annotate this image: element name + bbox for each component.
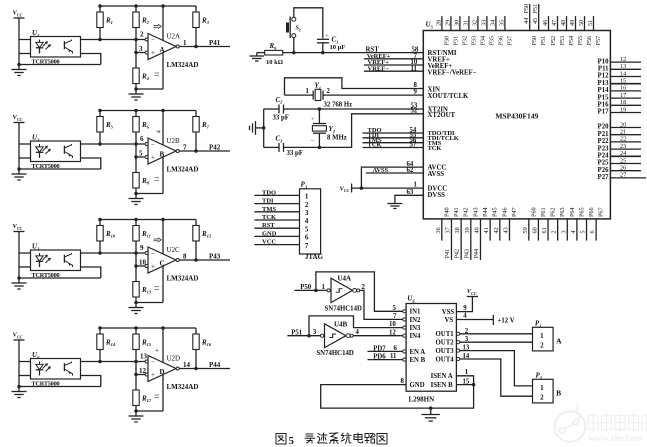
svg-text:2: 2	[540, 393, 544, 401]
wire sensor ground bus	[19, 277, 101, 279]
wire output net P44	[179, 361, 230, 369]
pin 19 P17	[598, 106, 641, 115]
wire VCC drop	[18, 18, 20, 65]
wire emitter to ground bus	[81, 158, 101, 169]
svg-text:RST: RST	[262, 222, 275, 229]
svg-text:A: A	[556, 337, 562, 346]
wire LED cathode to ground bus	[19, 157, 31, 159]
wire OUT2 to P1.2	[460, 336, 533, 343]
wire LED cathode to ground bus	[19, 266, 31, 268]
svg-text:GND: GND	[262, 230, 277, 237]
svg-text:TMS: TMS	[262, 206, 276, 213]
VCC supply sensor block P42	[13, 114, 25, 122]
svg-text:3: 3	[560, 230, 567, 233]
pin 40 P44	[473, 207, 489, 260]
svg-text:7: 7	[183, 144, 187, 152]
svg-text:P32: P32	[461, 36, 468, 46]
resistor R11 divider top	[133, 220, 151, 282]
wire JTAG VCC pin 7	[254, 239, 309, 250]
pin 5 P66	[580, 207, 596, 240]
pin circle OUT3	[457, 349, 460, 352]
svg-text:OUT4: OUT4	[436, 356, 455, 363]
svg-text:9: 9	[140, 244, 144, 252]
pin 61 P62	[541, 207, 557, 240]
pin circle IN3	[403, 326, 406, 329]
svg-text:18: 18	[620, 99, 626, 106]
connector P2 motor B	[533, 372, 562, 403]
svg-text:−: −	[151, 249, 155, 257]
wire ISEN B	[456, 378, 473, 385]
pin 2 P63	[551, 207, 567, 240]
wire sensor top rail	[19, 143, 146, 145]
svg-text:2: 2	[540, 341, 544, 349]
svg-text:TDO: TDO	[262, 189, 276, 196]
svg-text:B: B	[160, 151, 165, 159]
pin 43 P47	[502, 207, 518, 240]
svg-text:TCK: TCK	[368, 142, 382, 149]
optocoupler U6 TCRT5000	[31, 351, 81, 388]
svg-text:32 768 Hz: 32 768 Hz	[324, 101, 353, 108]
svg-text:P25: P25	[598, 160, 610, 167]
svg-text:25: 25	[620, 157, 626, 164]
svg-text:10 kΩ: 10 kΩ	[266, 59, 283, 66]
svg-text:29: 29	[444, 20, 451, 26]
svg-text:1: 1	[183, 39, 187, 47]
svg-text:5: 5	[139, 150, 143, 158]
wire ground rail left	[263, 109, 265, 147]
svg-text:6: 6	[394, 345, 398, 352]
wire emitter to ground bus	[81, 267, 101, 278]
svg-text:1: 1	[305, 193, 309, 201]
op-amp U2C LM324AD	[136, 220, 198, 303]
svg-text:8: 8	[401, 378, 405, 385]
svg-text:U2C: U2C	[167, 246, 181, 254]
resistor R9 10k	[265, 42, 283, 66]
pin 44 P50 net stub	[523, 4, 538, 46]
svg-text:12: 12	[139, 367, 147, 375]
pin 59 P60	[522, 207, 538, 240]
svg-text:+: +	[311, 117, 314, 123]
svg-text:52: 52	[411, 107, 418, 114]
svg-text:4: 4	[463, 312, 467, 319]
wire output net P43	[179, 253, 230, 261]
pin 45 P51 net stub	[532, 4, 547, 46]
svg-text:P43: P43	[472, 207, 479, 217]
svg-text:VS: VS	[445, 317, 454, 324]
svg-text:61: 61	[541, 227, 548, 233]
svg-text:14: 14	[183, 361, 191, 369]
svg-text:2: 2	[465, 328, 469, 335]
pin 35 P37	[498, 16, 513, 45]
svg-text:P61: P61	[540, 207, 547, 217]
pin circle OUT4	[457, 357, 460, 360]
pin 50 P56	[578, 16, 593, 45]
svg-text:+: +	[151, 154, 155, 162]
capacitor C3 33pF	[264, 135, 320, 157]
svg-text:P36: P36	[497, 36, 504, 46]
VCC supply DVCC	[340, 184, 352, 194]
svg-text:8 MHz: 8 MHz	[327, 134, 347, 141]
svg-text:11: 11	[155, 285, 161, 291]
svg-text:2: 2	[305, 201, 309, 209]
svg-text:+: +	[155, 347, 159, 355]
svg-text:U2B: U2B	[167, 137, 181, 145]
resistor R13 divider bottom	[133, 282, 152, 303]
wire ISEN A	[456, 369, 473, 385]
wire DVSS to ground	[395, 195, 423, 201]
svg-text:SN74HC14D: SN74HC14D	[325, 305, 362, 312]
switch S1 reset	[286, 17, 301, 39]
svg-text:3: 3	[139, 45, 143, 53]
ground divider	[129, 89, 144, 100]
wire P51 to IN3	[309, 316, 404, 336]
optocoupler U2 TCRT5000	[31, 134, 81, 171]
svg-text:P51: P51	[532, 4, 539, 14]
svg-text:P13: P13	[598, 80, 610, 87]
svg-text:L298HN: L298HN	[409, 396, 435, 404]
svg-text:30: 30	[453, 20, 460, 26]
pin 36 P40	[435, 207, 451, 240]
svg-text:42: 42	[493, 227, 500, 233]
svg-text:AVSS: AVSS	[373, 167, 389, 174]
svg-text:P40: P40	[443, 207, 450, 217]
svg-text:P51: P51	[540, 36, 547, 46]
ground crystal rail	[250, 121, 264, 135]
pin circle OUT2	[457, 341, 460, 344]
svg-text:9: 9	[414, 89, 418, 96]
pin 34 P36	[489, 16, 504, 45]
svg-text:D: D	[160, 368, 165, 376]
svg-text:14: 14	[620, 70, 626, 77]
svg-text:43: 43	[502, 227, 509, 233]
ground sensor	[12, 278, 27, 289]
svg-text:33: 33	[480, 20, 487, 26]
svg-text:11: 11	[155, 394, 161, 400]
wire P50 to IN1	[316, 272, 404, 311]
svg-text:6: 6	[589, 230, 596, 233]
svg-text:P44: P44	[209, 361, 221, 369]
svg-text:P44: P44	[482, 207, 489, 217]
svg-text:33 pF: 33 pF	[273, 115, 289, 122]
svg-text:7: 7	[393, 313, 397, 320]
pin 37 P41	[444, 207, 460, 260]
svg-text:DVSS: DVSS	[428, 192, 446, 199]
svg-text:47: 47	[551, 20, 558, 26]
svg-text:22: 22	[620, 136, 626, 143]
VCC supply L298	[467, 288, 478, 297]
pin circle IN4	[403, 334, 406, 337]
resistor R16 feedback	[193, 328, 212, 369]
pin 30 P32	[453, 16, 468, 45]
svg-text:6: 6	[305, 234, 309, 242]
connector P1 motor A	[533, 320, 563, 351]
svg-text:13: 13	[140, 353, 148, 361]
capacitor C1 10uF	[317, 34, 345, 53]
svg-text:37: 37	[444, 227, 451, 233]
svg-text:5: 5	[393, 305, 397, 312]
svg-text:P43: P43	[463, 249, 470, 259]
wire U4B out to IN4 pin 12	[353, 329, 404, 336]
svg-text:8: 8	[183, 253, 187, 261]
wire PD6 EN B	[368, 353, 405, 360]
wire JTAG TCK pin 4	[254, 214, 309, 225]
svg-text:32: 32	[471, 20, 478, 26]
svg-text:4: 4	[305, 217, 309, 225]
svg-text:35: 35	[498, 20, 505, 26]
svg-text:TDI: TDI	[262, 198, 274, 205]
wire VCC drop	[18, 123, 20, 170]
svg-text:P54: P54	[568, 36, 575, 46]
pin 15 P13	[598, 78, 641, 87]
pin 49 P55	[569, 16, 584, 45]
svg-text:P17: P17	[598, 109, 610, 116]
wire VCC drop	[18, 232, 20, 279]
ground R9	[250, 53, 265, 61]
svg-text:AVSS: AVSS	[428, 171, 445, 178]
svg-text:17: 17	[620, 92, 626, 99]
pin 14 P12	[598, 70, 641, 79]
pin 16 P14	[598, 85, 641, 94]
pin 26 P26	[598, 165, 641, 174]
pin 25 P25	[598, 157, 641, 166]
wire output net P41	[179, 39, 230, 47]
svg-text:2: 2	[140, 31, 144, 39]
svg-text:−: −	[151, 140, 155, 148]
svg-text:LM324AD: LM324AD	[167, 61, 199, 69]
svg-text:U2D: U2D	[167, 355, 181, 363]
svg-text:P14: P14	[598, 87, 610, 94]
svg-text:3: 3	[465, 336, 469, 343]
svg-text:P50: P50	[300, 284, 312, 291]
wire VSS to VCC	[456, 297, 472, 312]
wire AVSS stub	[366, 167, 423, 174]
svg-text:P41: P41	[209, 39, 221, 47]
svg-text:4: 4	[356, 329, 360, 336]
svg-text:U4B: U4B	[334, 320, 348, 328]
svg-text:5: 5	[580, 230, 587, 233]
wire TDO stub	[363, 127, 424, 134]
svg-text:P64: P64	[569, 207, 576, 217]
svg-text:7: 7	[305, 242, 309, 250]
wire RST net	[283, 46, 424, 53]
wire VCC drop	[18, 340, 20, 387]
svg-text:44: 44	[523, 18, 530, 24]
svg-text:4: 4	[570, 230, 577, 233]
svg-text:P62: P62	[550, 207, 557, 217]
resistor R5 pull-up	[97, 111, 114, 145]
svg-text:21: 21	[620, 129, 626, 136]
svg-text:11: 11	[390, 353, 397, 360]
svg-text:13: 13	[620, 63, 626, 70]
ground sensor	[12, 65, 27, 76]
svg-text:MSP430F149: MSP430F149	[495, 111, 538, 120]
svg-text:50: 50	[578, 20, 585, 26]
pin circle IN2	[403, 318, 406, 321]
pin name GND	[401, 378, 425, 389]
wire VREF- stub	[364, 65, 423, 72]
wire emitter to ground bus	[81, 54, 101, 65]
svg-text:P35: P35	[488, 36, 495, 46]
resistor R7 feedback	[193, 111, 210, 152]
wire JTAG TMS pin 3	[254, 206, 309, 217]
resistor R3 feedback	[193, 6, 210, 47]
svg-text:P65: P65	[578, 207, 585, 217]
svg-text:GND: GND	[410, 382, 425, 389]
pin circle OUT1	[457, 332, 460, 335]
svg-text:4: 4	[157, 130, 163, 133]
op-amp U2B LM324AD	[136, 111, 198, 194]
pin 41 P45	[483, 207, 499, 240]
svg-text:P26: P26	[598, 167, 610, 174]
inverter U4A SN74HC14D	[325, 275, 362, 313]
svg-text:3: 3	[313, 329, 317, 336]
wire AVCC	[361, 167, 423, 188]
VCC supply sensor block P44	[13, 332, 25, 340]
svg-text:PD7: PD7	[373, 345, 386, 352]
wire VeREF+ stub	[364, 53, 423, 60]
svg-text:P34: P34	[479, 36, 486, 46]
svg-text:P24: P24	[598, 153, 610, 160]
VCC supply sensor block P41	[13, 10, 25, 18]
crystal Y2 8MHz	[311, 109, 347, 147]
ground sensor	[12, 169, 27, 180]
svg-text:20: 20	[620, 121, 626, 128]
op-amp U2D LM324AD	[136, 328, 198, 411]
resistor R4 divider bottom	[133, 68, 150, 89]
svg-text:6: 6	[140, 135, 144, 143]
svg-text:LM324AD: LM324AD	[167, 275, 199, 283]
svg-text:−: −	[311, 138, 315, 145]
svg-text:12: 12	[620, 56, 626, 63]
wire DVCC	[352, 187, 424, 189]
svg-text:P50: P50	[531, 36, 538, 46]
svg-text:IN4: IN4	[410, 333, 422, 340]
capacitor C2 33pF	[264, 96, 289, 122]
svg-text:P31: P31	[452, 36, 459, 46]
resistor R12 feedback	[193, 220, 212, 261]
svg-text:31: 31	[462, 20, 469, 26]
svg-text:19: 19	[620, 106, 626, 113]
svg-text:OUT3: OUT3	[436, 348, 455, 355]
svg-text:P27: P27	[598, 174, 610, 181]
wire OUT1 to P1.1	[460, 328, 533, 335]
optocoupler U1 TCRT5000	[31, 29, 81, 66]
svg-text:34: 34	[489, 20, 496, 26]
svg-text:P42: P42	[209, 144, 221, 152]
svg-text:28: 28	[435, 20, 442, 26]
svg-text:11: 11	[411, 65, 418, 72]
wire JTAG TDO pin 1	[254, 189, 309, 200]
svg-text:www.elecfans: www.elecfans	[588, 434, 643, 444]
svg-text:P12: P12	[598, 73, 610, 80]
svg-text:TCK: TCK	[428, 145, 442, 152]
pin 31 P33	[462, 16, 477, 45]
svg-text:45: 45	[532, 18, 539, 24]
pin 33 P35	[480, 16, 495, 45]
svg-text:P41: P41	[444, 249, 451, 259]
svg-text:P16: P16	[598, 102, 610, 109]
svg-text:B: B	[556, 389, 561, 398]
wire plus input	[136, 156, 146, 158]
svg-text:IN2: IN2	[410, 317, 422, 324]
svg-text:VREF−/VeREF−: VREF−/VeREF−	[428, 70, 477, 77]
inverter U4B SN74HC14D	[316, 320, 353, 357]
svg-text:P57: P57	[595, 36, 602, 46]
svg-text:VSS: VSS	[442, 309, 455, 316]
svg-text:+: +	[151, 49, 155, 57]
wire XIN	[285, 78, 424, 95]
svg-text:10 µF: 10 µF	[330, 44, 346, 51]
wire sensor ground bus	[19, 64, 101, 66]
wire PD7 EN A	[368, 345, 405, 352]
svg-text:2: 2	[362, 284, 366, 291]
pin 23 P23	[598, 143, 641, 152]
pin 3 P64	[560, 207, 576, 240]
wire GND loop	[321, 385, 474, 409]
svg-text:1: 1	[465, 369, 469, 376]
svg-text:ISEN B: ISEN B	[431, 382, 454, 389]
resistor R8 divider bottom	[133, 173, 150, 194]
pin 20 P20	[598, 121, 641, 130]
svg-text:2: 2	[551, 230, 558, 233]
svg-text:P55: P55	[577, 36, 584, 46]
svg-text:VREF−: VREF−	[368, 65, 390, 72]
svg-text:23: 23	[620, 143, 626, 150]
svg-text:P47: P47	[511, 207, 518, 217]
svg-text:36: 36	[435, 227, 442, 233]
svg-text:P51: P51	[291, 329, 303, 336]
wire LED cathode to ground bus	[19, 375, 31, 377]
svg-text:11: 11	[155, 72, 161, 78]
wire divider rail	[100, 5, 196, 7]
resistor R17 divider bottom	[133, 390, 152, 411]
svg-text:14: 14	[463, 353, 470, 360]
VCC supply sensor block P43	[13, 223, 25, 231]
svg-text:5: 5	[305, 225, 309, 233]
pin 39 P43	[463, 207, 479, 260]
svg-text:P22: P22	[598, 138, 610, 145]
wire divider rail	[100, 110, 196, 112]
svg-text:JTAG: JTAG	[305, 253, 324, 261]
pin 27 P27	[598, 172, 646, 181]
svg-text:39: 39	[464, 227, 471, 233]
watermark text elecfans	[588, 414, 647, 432]
wire LED cathode to ground bus	[19, 53, 31, 55]
resistor R15 divider top	[133, 328, 152, 390]
svg-text:59: 59	[522, 227, 529, 233]
svg-text:IN3: IN3	[410, 325, 422, 332]
wire S1 bottom	[293, 38, 295, 53]
svg-text:P50: P50	[523, 4, 530, 14]
svg-text:13: 13	[463, 345, 470, 352]
svg-text:IN1: IN1	[410, 309, 422, 316]
svg-text:49: 49	[569, 20, 576, 26]
svg-text:2: 2	[327, 88, 331, 95]
pin 24 P24	[598, 150, 641, 159]
svg-text:57: 57	[410, 142, 417, 149]
resistor R2 divider top	[133, 6, 150, 68]
svg-text:12: 12	[389, 329, 396, 336]
svg-text:OUT1: OUT1	[436, 331, 455, 338]
wire plus input	[136, 265, 146, 267]
ground DVSS	[387, 202, 402, 209]
wire TDI stub	[363, 132, 424, 139]
wire JTAG TDI pin 2	[254, 198, 309, 209]
pin 46 P52	[542, 16, 557, 45]
svg-text:P42: P42	[463, 207, 470, 217]
svg-text:48: 48	[560, 20, 567, 26]
pin 6 P67	[589, 207, 605, 240]
